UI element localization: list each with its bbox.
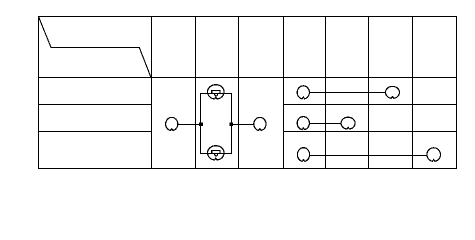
- outer frame: [39, 17, 457, 169]
- vertical grid line x=325: [325, 17, 327, 169]
- row3 wire: [310, 155, 426, 157]
- lamp E1 circle: [208, 85, 225, 99]
- wire: parallel loop rectangle: [201, 94, 232, 154]
- row1 terminal circle right: [386, 86, 400, 98]
- terminal circle right: [254, 117, 266, 130]
- row1 wire: [310, 92, 385, 94]
- wire: left terminal to node A: [178, 124, 200, 126]
- row2 terminal circle left: [297, 117, 309, 130]
- row3 terminal circle left: [297, 148, 309, 162]
- row2 terminal circle right: [341, 117, 355, 129]
- lamp E2 filament: [212, 150, 220, 156]
- horizontal grid line y=104 right segment: [284, 104, 457, 106]
- junction dot node A: [199, 122, 203, 126]
- vertical grid line x=151: [151, 17, 153, 169]
- vertical grid line x=195: [195, 17, 197, 169]
- horizontal grid line y=77 (full width): [39, 77, 457, 79]
- vertical grid line x=368: [368, 17, 370, 169]
- row1 terminal circle left: [297, 86, 309, 99]
- vertical grid line x=283: [283, 17, 285, 169]
- lamp E1 filament: [212, 90, 220, 96]
- vertical grid line x=238: [238, 17, 240, 169]
- vertical grid line x=412: [412, 17, 414, 169]
- wire: node B to right terminal: [232, 124, 254, 126]
- lamp E2 circle: [208, 146, 225, 160]
- horizontal grid line y=131 left segment: [39, 131, 152, 133]
- title-block polyline in top-left cell: [39, 17, 151, 78]
- row2 wire: [310, 123, 341, 125]
- horizontal grid line y=104 left segment: [39, 104, 152, 106]
- terminal circle left: [166, 117, 178, 130]
- horizontal grid line y=131 right segment: [284, 131, 457, 133]
- row3 terminal circle right: [427, 148, 441, 161]
- junction dot node B: [230, 122, 234, 126]
